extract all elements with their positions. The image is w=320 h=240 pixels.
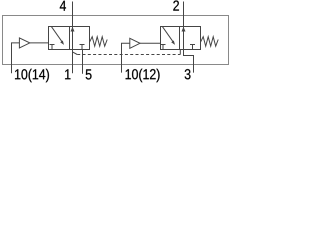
valve V1 pilot line from port 10(14): [12, 43, 20, 73]
valve V1 body: [49, 27, 90, 50]
dashed pilot line to valve V2: [77, 54, 180, 56]
valve V2 blocked port T (right square): [190, 45, 195, 50]
valve V2 exhaust diagonal with arrow: [162, 26, 173, 41]
valve V2 pilot triangle: [130, 38, 140, 48]
valve V1 flow arrow up (right square): [71, 27, 75, 32]
dashed pilot line riser to valve V2 body: [179, 50, 181, 55]
valve V2 spring: [201, 37, 219, 47]
valve V2 pilot line apex to body: [140, 42, 161, 44]
valve V1 pilot triangle: [19, 38, 29, 48]
port 3 under-route from valve V2: [184, 50, 194, 73]
valve V2 divider: [179, 27, 181, 50]
label 5: [86, 69, 92, 79]
valve V2 pilot line from port 10(12): [122, 43, 130, 72]
valve V2 body: [161, 27, 201, 50]
label 10(14): [15, 69, 49, 83]
valve V1 blocked port T (left square): [50, 45, 55, 50]
port 1 line below valve V1: [72, 50, 74, 74]
enclosure box: [3, 16, 229, 65]
valve V1 blocked port T (right square): [80, 45, 85, 50]
pilot branch diagonal from port 1 line: [73, 52, 78, 55]
port 4 label: [60, 1, 66, 11]
valve V1 spring: [90, 37, 108, 47]
port 5 line below valve V1: [82, 50, 84, 74]
valve V2 blocked port T (left square): [161, 45, 166, 50]
port 4 line: [72, 2, 74, 50]
port 2 line: [183, 2, 185, 50]
valve V1 pilot line apex to body: [30, 42, 49, 44]
label 10(12): [126, 69, 160, 83]
valve V2 flow arrow up (right square): [182, 27, 186, 32]
label 3: [185, 69, 191, 79]
port 2 label: [173, 0, 179, 10]
valve V1 divider: [69, 27, 71, 50]
valve V1 exhaust diagonal with arrow: [51, 26, 62, 41]
label 1: [65, 69, 70, 79]
